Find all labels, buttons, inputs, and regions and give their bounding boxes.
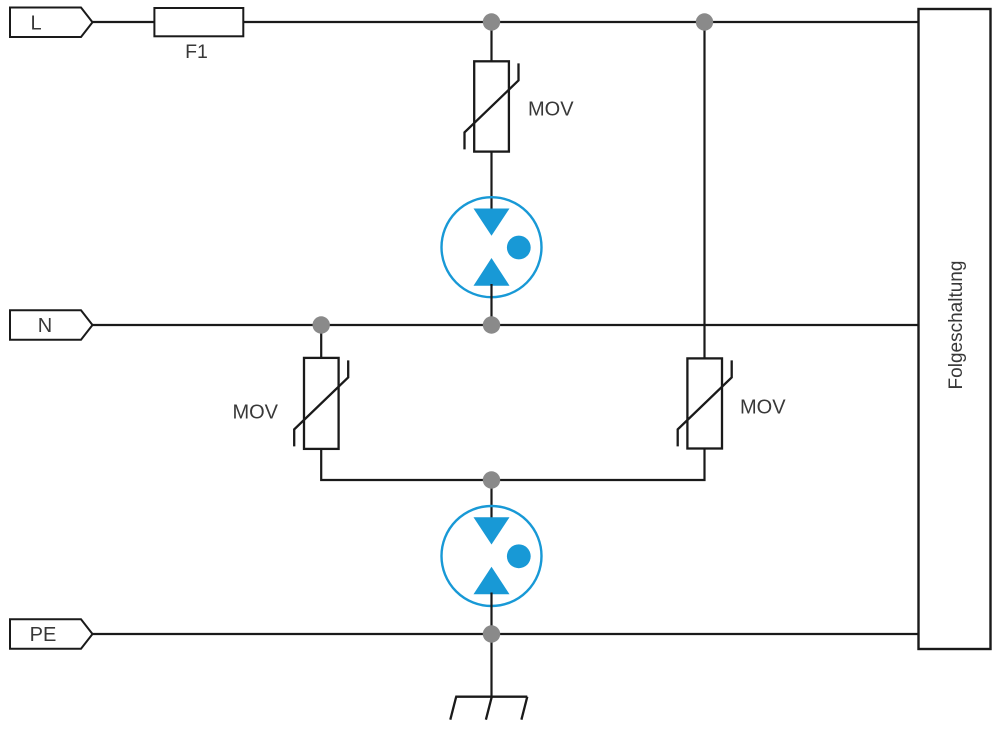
svg-text:F1: F1	[185, 41, 208, 63]
svg-text:MOV: MOV	[528, 99, 574, 121]
wire disconnector U2 to PE node	[490, 593, 492, 635]
wire PE node down to ground	[490, 634, 492, 698]
wire N node down to MOV2	[320, 325, 322, 359]
varistor MOV2 (N-PE left)	[294, 358, 348, 449]
wire L terminal to fuse	[93, 21, 155, 23]
terminal PE	[10, 619, 93, 649]
wire from L node down to MOV1	[490, 22, 492, 62]
svg-text:Folgeschaltung: Folgeschaltung	[946, 261, 967, 390]
wire PE line: terminal to Folgeschaltung box	[93, 633, 919, 635]
wire common node down to disconnector U2	[490, 480, 492, 519]
wire L line: fuse to Folgeschaltung box	[243, 21, 918, 23]
disconnector indicator U1 (blue)	[442, 197, 542, 297]
varistor MOV3 (L-PE right)	[678, 358, 732, 448]
wire MOV1 to disconnector U1	[490, 152, 492, 210]
ground symbol	[450, 697, 527, 720]
terminal N	[10, 310, 93, 340]
Folgeschaltung box	[919, 9, 991, 649]
node MOV2/MOV3 common junction	[483, 471, 500, 488]
node on PE line below U2	[483, 625, 500, 642]
node on N line above MOV2	[313, 316, 330, 333]
wire L node down to MOV3 (crosses N line)	[703, 22, 705, 359]
node on L line above MOV3	[696, 13, 713, 30]
svg-text:MOV: MOV	[740, 397, 786, 419]
wire MOV2 down to common node	[321, 449, 491, 480]
svg-text:MOV: MOV	[232, 402, 278, 424]
svg-text:N: N	[38, 315, 52, 337]
node on L line above MOV1	[483, 13, 500, 30]
svg-text:PE: PE	[30, 624, 57, 646]
varistor MOV1 (L-N)	[465, 61, 519, 151]
wire MOV3 down to common node	[492, 449, 705, 481]
disconnector indicator U2 (blue)	[442, 506, 542, 606]
wire N line: terminal to Folgeschaltung box	[93, 324, 919, 326]
wire disconnector U1 to N node	[490, 284, 492, 325]
node on N line below U1	[483, 316, 500, 333]
fuse F1	[154, 8, 243, 63]
svg-text:L: L	[30, 12, 41, 34]
terminal L	[10, 8, 93, 38]
